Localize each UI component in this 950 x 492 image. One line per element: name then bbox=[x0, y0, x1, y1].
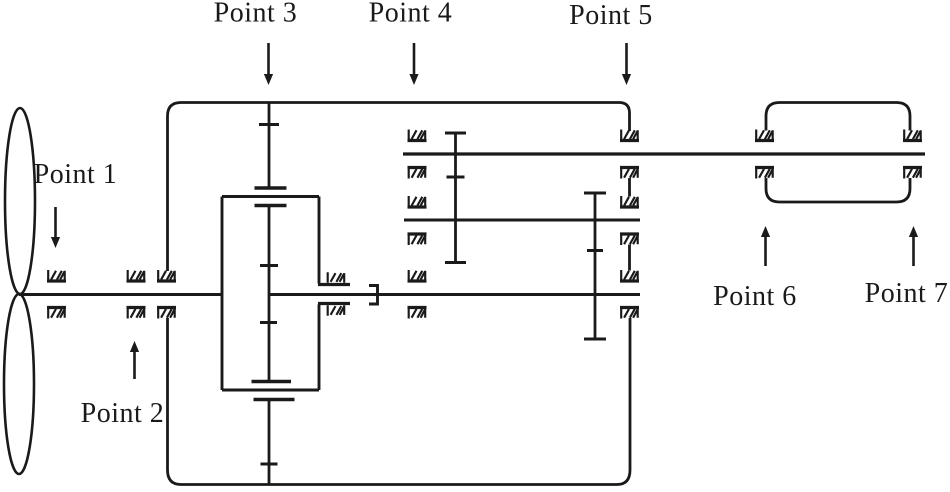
ring gear bar bottom inner bbox=[252, 380, 292, 383]
svg-text:Point 5: Point 5 bbox=[569, 0, 653, 31]
gearbox housing right wall lower bbox=[629, 318, 632, 470]
bearing intermediate shaft right upper bbox=[620, 196, 639, 207]
bearing main shaft 3 lower bbox=[157, 308, 176, 319]
arrow Point 4 bbox=[409, 43, 418, 85]
arrow Point 1 bbox=[51, 207, 60, 248]
sun output shaft bbox=[270, 293, 641, 296]
intermediate shaft bbox=[404, 219, 640, 222]
planet carrier right wall lower bbox=[318, 305, 321, 391]
carrier bearing bracket upper bbox=[318, 283, 350, 286]
planet carrier left wall bbox=[221, 197, 224, 391]
arrow Point 2 bbox=[130, 341, 139, 379]
gearbox housing top-left corner bbox=[168, 103, 182, 117]
carrier bearing bracket lower bbox=[318, 302, 350, 305]
arrow Point 3 bbox=[264, 43, 273, 85]
gearbox housing left wall lower bbox=[166, 318, 169, 470]
gearbox housing right wall link 1 bbox=[628, 178, 631, 197]
bearing intermediate shaft left upper bbox=[408, 196, 427, 207]
gearbox housing right wall top segment bbox=[628, 113, 631, 131]
arrow Point 7 bbox=[909, 226, 918, 266]
bearing output shaft right lower bbox=[620, 308, 639, 319]
sun gear tick upper bbox=[260, 264, 278, 267]
sun gear tick lower bbox=[260, 321, 277, 324]
ring gear bar bottom outer bbox=[254, 398, 295, 401]
bearing main shaft 1 lower bbox=[47, 308, 66, 319]
gear mesh stage 2 bbox=[445, 133, 466, 263]
arrow Point 6 bbox=[761, 226, 770, 266]
bearing carrier output upper bbox=[328, 272, 345, 282]
bearing generator left lower bbox=[755, 168, 774, 179]
gearbox housing bottom-left corner bbox=[168, 470, 182, 485]
ring gear bar top inner bbox=[255, 204, 287, 207]
ring gear bar top outer bbox=[255, 186, 287, 189]
shaft coupling half bbox=[369, 286, 378, 305]
bearing generator right lower bbox=[903, 168, 922, 179]
svg-text:Point 3: Point 3 bbox=[214, 0, 298, 29]
planet carrier right wall upper bbox=[318, 197, 321, 284]
bearing generator right upper bbox=[903, 130, 922, 141]
planet carrier bottom wall bbox=[222, 389, 319, 392]
gearbox housing right wall link 2 bbox=[628, 245, 631, 271]
main low-speed shaft bbox=[19, 293, 222, 296]
bearing main shaft 3 upper bbox=[157, 270, 176, 281]
rotor blade upper bbox=[5, 108, 35, 294]
planet shaft tick upper bbox=[259, 123, 279, 126]
arrow Point 5 bbox=[622, 43, 631, 85]
generator frame bottom bracket bbox=[766, 178, 910, 202]
bearing high-speed shaft right upper bbox=[620, 130, 639, 141]
bearing high-speed shaft left lower bbox=[408, 168, 427, 179]
gearbox housing top-right corner bbox=[619, 103, 630, 114]
gearbox housing left wall upper bbox=[166, 116, 169, 271]
planet carrier top wall bbox=[222, 195, 319, 198]
svg-text:Point 2: Point 2 bbox=[81, 398, 165, 429]
rotor blade lower bbox=[4, 294, 34, 474]
generator frame top bracket bbox=[766, 103, 910, 131]
planet shaft vertical lower bbox=[268, 400, 271, 485]
bearing carrier output lower bbox=[328, 305, 345, 315]
bearing intermediate shaft left lower bbox=[408, 234, 427, 245]
bearing intermediate shaft right lower bbox=[620, 234, 639, 245]
bearing high-speed shaft right lower bbox=[620, 168, 639, 179]
bearing generator left upper bbox=[755, 130, 774, 141]
bearing main shaft 1 upper bbox=[47, 270, 66, 281]
svg-text:Point 6: Point 6 bbox=[713, 281, 797, 312]
planet shaft vertical upper bbox=[268, 103, 271, 188]
gearbox housing top edge bbox=[181, 101, 619, 104]
gearbox housing bottom-right corner bbox=[617, 470, 630, 485]
high-speed shaft bbox=[403, 152, 925, 155]
svg-text:Point 7: Point 7 bbox=[865, 278, 949, 309]
bearing output shaft left upper bbox=[408, 270, 427, 281]
planet shaft tick lower bbox=[261, 463, 278, 466]
gearbox housing bottom edge bbox=[181, 483, 617, 486]
bearing high-speed shaft left upper bbox=[408, 130, 427, 141]
svg-text:Point 1: Point 1 bbox=[34, 159, 118, 190]
bearing output shaft right upper bbox=[620, 270, 639, 281]
planet shaft vertical middle bbox=[268, 206, 271, 382]
gear mesh stage 1 bbox=[584, 193, 606, 339]
bearing output shaft left lower bbox=[408, 308, 427, 319]
bearing main shaft 2 lower bbox=[127, 308, 146, 319]
svg-text:Point 4: Point 4 bbox=[369, 0, 453, 29]
bearing main shaft 2 upper bbox=[127, 270, 146, 281]
